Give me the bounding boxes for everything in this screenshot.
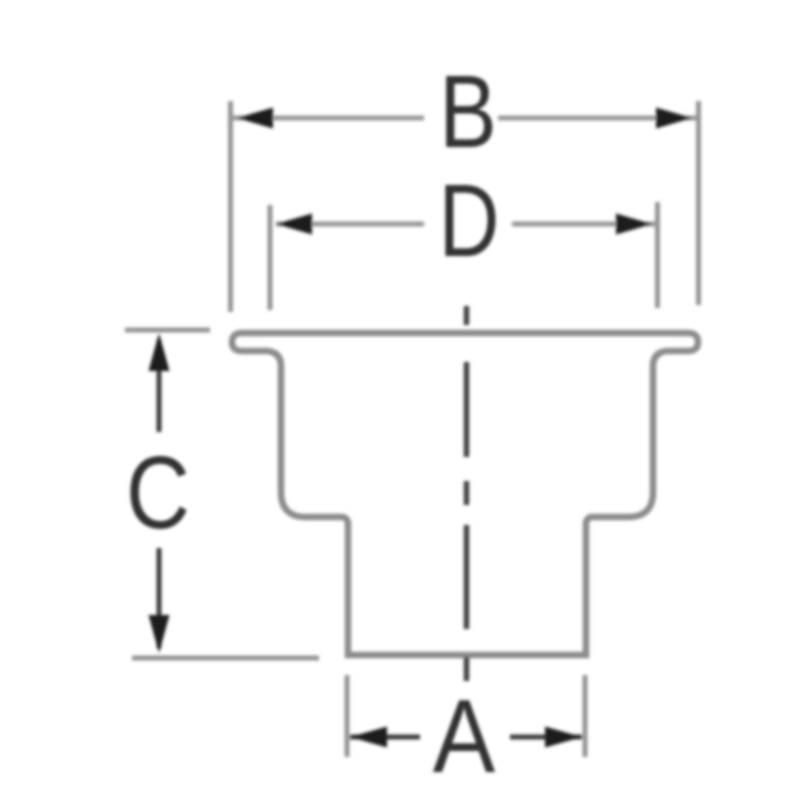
arrowhead B left [237,108,273,129]
arrowhead D left [276,214,312,235]
arrowhead C top [149,333,170,371]
extension line C top [125,328,210,333]
label B [439,55,497,170]
arrowhead C bottom [149,615,170,653]
dimension line D [276,222,655,227]
extension line A left [345,675,350,757]
svg-text:B: B [439,55,497,170]
label D [439,163,500,278]
extension line D left [268,205,273,310]
extension line B right [696,101,701,305]
arrowhead A left [350,727,387,748]
label C [126,436,190,551]
arrowhead A right [545,727,582,748]
centerline (vertical dash-dot axis) [464,306,470,681]
svg-text:C: C [126,436,190,551]
arrowhead D right [616,214,652,235]
extension line A right [583,675,588,757]
part outline (flanged cup cross-section) [232,333,698,655]
dimension line B [233,116,697,121]
extension line C bottom [132,656,319,661]
svg-text:D: D [439,163,500,278]
dimension line C [157,340,162,648]
extension line B left [228,101,233,312]
label A [433,677,495,794]
dimension line A [350,735,582,740]
svg-text:A: A [433,677,495,794]
arrowhead B right [656,108,692,129]
extension line D right [655,202,660,308]
